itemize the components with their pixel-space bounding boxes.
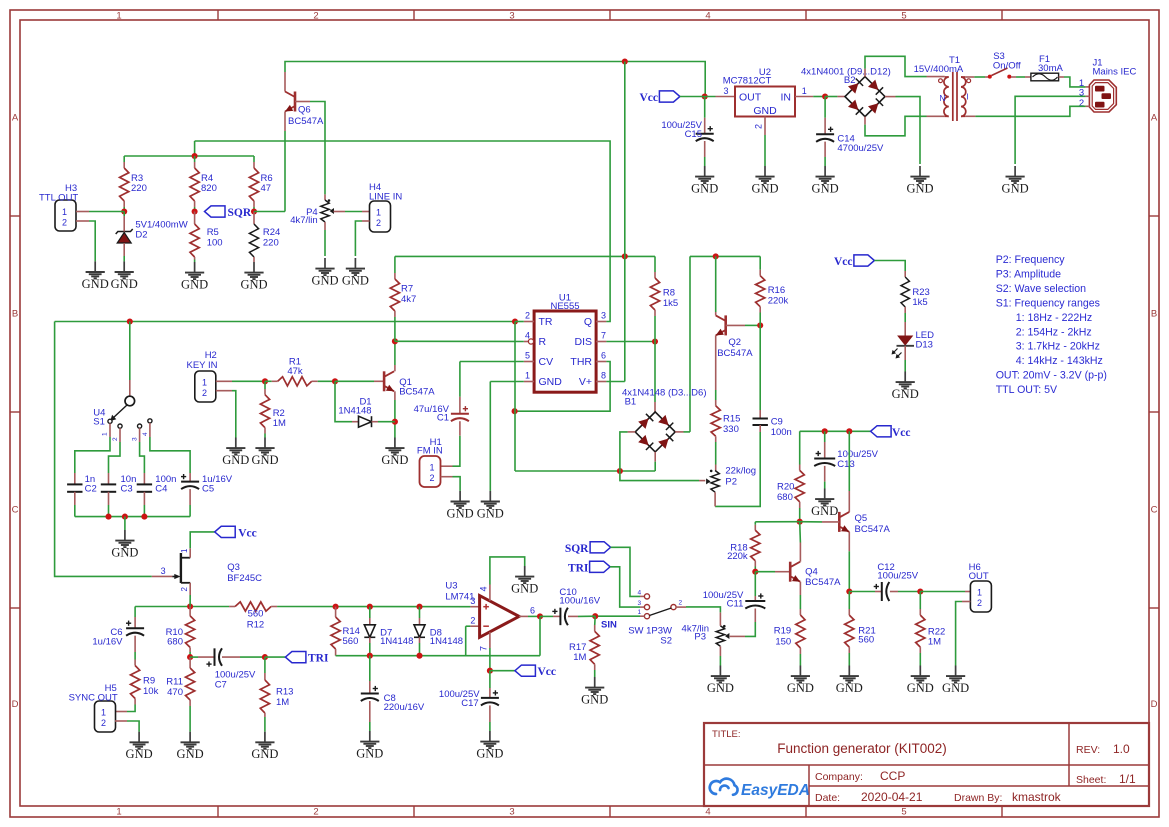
svg-text:B: B (12, 309, 18, 320)
svg-text:2: 2 (754, 124, 764, 129)
svg-text:FM IN: FM IN (417, 446, 443, 457)
svg-text:4k7/lin: 4k7/lin (290, 215, 317, 226)
svg-text:2: 2 (62, 218, 67, 228)
svg-text:560: 560 (858, 635, 874, 646)
svg-text:47: 47 (261, 183, 272, 194)
svg-text:2: 2 (430, 473, 435, 483)
svg-text:GND: GND (581, 693, 608, 707)
svg-text:B2: B2 (844, 75, 856, 86)
svg-text:C: C (12, 505, 19, 516)
svg-text:2: 2 (180, 587, 189, 592)
svg-text:Date:: Date: (815, 792, 840, 804)
svg-text:GND: GND (111, 546, 138, 560)
svg-text:BC547A: BC547A (855, 524, 891, 535)
svg-text:C9: C9 (771, 417, 783, 428)
svg-text:GND: GND (511, 582, 538, 596)
svg-text:GND: GND (907, 681, 934, 695)
svg-text:MC7812CT: MC7812CT (723, 76, 772, 87)
svg-text:5: 5 (525, 351, 530, 361)
svg-text:P3: Amplitude: P3: Amplitude (996, 268, 1061, 280)
svg-text:680: 680 (777, 492, 793, 503)
svg-text:Q4: Q4 (805, 567, 818, 578)
svg-text:GND: GND (356, 747, 383, 761)
svg-text:S1: Frequency ranges: S1: Frequency ranges (996, 297, 1100, 309)
svg-text:1: 1 (525, 371, 530, 381)
svg-text:5: 5 (901, 807, 906, 818)
svg-text:GND: GND (707, 681, 734, 695)
svg-text:Q6: Q6 (298, 105, 311, 116)
svg-text:IN: IN (781, 92, 792, 104)
svg-text:GND: GND (836, 681, 863, 695)
svg-text:1.0: 1.0 (1113, 742, 1130, 756)
svg-text:R5: R5 (207, 227, 219, 238)
svg-text:TR: TR (539, 316, 553, 328)
svg-text:Company:: Company: (815, 771, 863, 783)
svg-text:R16: R16 (768, 285, 785, 296)
svg-text:1: 1 (430, 463, 435, 473)
svg-text:1: 1 (62, 207, 67, 217)
svg-text:GND: GND (311, 274, 338, 288)
svg-text:R13: R13 (276, 687, 293, 698)
svg-text:TRI: TRI (308, 653, 329, 665)
svg-text:1: 1 (102, 432, 109, 436)
svg-text:D2: D2 (135, 230, 147, 241)
svg-text:1u/16V: 1u/16V (92, 637, 123, 648)
svg-text:3: 3 (601, 311, 606, 321)
svg-text:GND: GND (906, 182, 933, 196)
svg-text:GND: GND (691, 182, 718, 196)
svg-text:SIN: SIN (601, 620, 617, 631)
svg-text:220k: 220k (768, 296, 789, 307)
svg-text:GND: GND (181, 278, 208, 292)
svg-text:GND: GND (240, 278, 267, 292)
svg-text:3: 3 (161, 566, 166, 576)
svg-text:SQR: SQR (565, 543, 589, 555)
svg-text:1M: 1M (928, 637, 941, 648)
svg-text:220: 220 (131, 183, 147, 194)
svg-text:1/1: 1/1 (1119, 772, 1136, 786)
svg-text:C2: C2 (85, 484, 97, 495)
svg-text:U3: U3 (445, 581, 457, 592)
svg-text:4: 4 (142, 432, 149, 436)
svg-text:C13: C13 (837, 459, 854, 470)
svg-text:GND: GND (751, 182, 778, 196)
svg-text:100: 100 (207, 238, 223, 249)
svg-text:On/Off: On/Off (993, 60, 1021, 71)
svg-text:1: 1 (116, 11, 121, 22)
svg-text:TRI: TRI (568, 562, 589, 574)
svg-text:BF245C: BF245C (227, 573, 262, 584)
svg-text:Q3: Q3 (227, 562, 240, 573)
svg-text:Vcc: Vcc (639, 92, 658, 104)
svg-text:SQR: SQR (228, 207, 252, 219)
svg-text:1: 1 (180, 548, 189, 553)
svg-text:C3: C3 (121, 484, 133, 495)
svg-text:GND: GND (222, 453, 249, 467)
svg-text:NE555: NE555 (550, 301, 579, 312)
svg-text:Q2: Q2 (728, 337, 741, 348)
svg-text:Drawn By:: Drawn By: (954, 792, 1002, 804)
svg-text:GND: GND (177, 747, 204, 761)
svg-text:5: 5 (901, 11, 906, 22)
svg-text:R20: R20 (777, 482, 794, 493)
svg-text:2: 2 (112, 437, 119, 441)
svg-text:D: D (1151, 699, 1158, 710)
svg-text:R12: R12 (247, 620, 264, 631)
svg-text:S2: Wave selection: S2: Wave selection (996, 283, 1086, 295)
svg-text:S1: S1 (93, 417, 105, 428)
svg-text:S2: S2 (660, 636, 672, 647)
svg-text:Function generator (KIT002): Function generator (KIT002) (777, 741, 947, 756)
svg-text:OUT: OUT (969, 571, 989, 582)
svg-text:2: 2 (977, 598, 982, 608)
svg-text:3: 3 (509, 11, 514, 22)
svg-text:2: 2 (679, 600, 683, 607)
svg-text:560: 560 (248, 609, 264, 620)
svg-text:2: 154Hz - 2kHz: 2: 154Hz - 2kHz (1016, 326, 1092, 338)
svg-text:330: 330 (723, 424, 739, 435)
svg-text:Sheet:: Sheet: (1076, 774, 1106, 786)
svg-text:820: 820 (201, 183, 217, 194)
svg-text:GND: GND (381, 453, 408, 467)
svg-text:BC547A: BC547A (717, 348, 753, 359)
svg-text:Q5: Q5 (855, 513, 868, 524)
svg-text:3: 3 (509, 807, 514, 818)
svg-text:R19: R19 (774, 626, 791, 637)
svg-text:KEY IN: KEY IN (187, 360, 218, 371)
svg-text:GND: GND (539, 376, 563, 388)
svg-text:2: 2 (101, 718, 106, 728)
svg-text:8: 8 (601, 371, 606, 381)
svg-text:2: 2 (313, 11, 318, 22)
svg-text:220u/16V: 220u/16V (384, 702, 425, 713)
svg-text:1: 18Hz - 222Hz: 1: 18Hz - 222Hz (1016, 312, 1093, 324)
svg-text:N: N (940, 94, 946, 103)
svg-text:GND: GND (477, 506, 504, 520)
svg-text:22k/log: 22k/log (725, 466, 756, 477)
svg-text:TITLE:: TITLE: (712, 729, 741, 740)
svg-text:R15: R15 (723, 414, 740, 425)
svg-text:1M: 1M (573, 652, 586, 663)
svg-text:GND: GND (1002, 182, 1029, 196)
svg-text:15V/400mA: 15V/400mA (914, 64, 964, 75)
svg-text:30mA: 30mA (1038, 63, 1063, 74)
svg-text:3: 3 (470, 596, 475, 606)
svg-text:1M: 1M (273, 418, 286, 429)
svg-text:4k7: 4k7 (401, 294, 416, 305)
svg-text:R24: R24 (263, 227, 280, 238)
svg-text:R7: R7 (401, 284, 413, 295)
svg-text:BC547A: BC547A (399, 387, 435, 398)
svg-text:CV: CV (539, 356, 554, 368)
svg-text:GND: GND (126, 747, 153, 761)
svg-text:BC547A: BC547A (805, 577, 841, 588)
svg-text:6: 6 (530, 605, 535, 615)
svg-text:C11: C11 (727, 599, 744, 610)
svg-text:4: 4 (479, 586, 489, 591)
svg-text:4: 4 (705, 807, 710, 818)
svg-text:R9: R9 (143, 676, 155, 687)
svg-text:D: D (12, 699, 19, 710)
svg-text:GND: GND (892, 387, 919, 401)
svg-text:B1: B1 (625, 397, 637, 408)
svg-text:C1: C1 (437, 413, 449, 424)
svg-text:1: 1 (116, 807, 121, 818)
svg-text:680: 680 (167, 637, 183, 648)
svg-text:2: 2 (313, 807, 318, 818)
svg-text:OUT: 20mV - 3.2V (p-p): OUT: 20mV - 3.2V (p-p) (996, 370, 1107, 382)
svg-text:1M: 1M (276, 697, 289, 708)
svg-text:C7: C7 (215, 679, 227, 690)
svg-text:Vcc: Vcc (834, 256, 853, 268)
svg-text:C: C (1151, 505, 1158, 516)
svg-text:1: 1 (202, 378, 207, 388)
svg-text:A: A (12, 113, 19, 124)
svg-text:1: 1 (638, 609, 642, 616)
svg-text:47k: 47k (287, 366, 303, 377)
svg-text:Mains IEC: Mains IEC (1093, 67, 1137, 78)
svg-text:3: 3 (638, 600, 642, 607)
svg-text:2020-04-21: 2020-04-21 (861, 790, 923, 804)
svg-text:B: B (1151, 309, 1157, 320)
svg-text:7: 7 (479, 646, 489, 651)
svg-text:10k: 10k (143, 686, 159, 697)
svg-text:Q: Q (584, 316, 592, 328)
svg-text:6: 6 (601, 351, 606, 361)
svg-text:470: 470 (167, 687, 183, 698)
svg-text:GND: GND (476, 747, 503, 761)
svg-text:REV:: REV: (1076, 744, 1100, 756)
svg-text:3: 3 (132, 437, 139, 441)
svg-text:100u/25V: 100u/25V (877, 571, 918, 582)
svg-text:GND: GND (82, 277, 109, 291)
svg-text:GND: GND (251, 747, 278, 761)
svg-text:kmastrok: kmastrok (1012, 790, 1062, 804)
svg-text:1: 1 (802, 86, 807, 96)
svg-text:BC547A: BC547A (288, 116, 324, 127)
svg-text:1k5: 1k5 (912, 297, 927, 308)
svg-text:1N4148: 1N4148 (338, 406, 371, 417)
svg-text:GND: GND (942, 681, 969, 695)
svg-text:GND: GND (111, 277, 138, 291)
svg-text:C5: C5 (202, 484, 214, 495)
svg-text:A: A (1151, 113, 1158, 124)
svg-text:Vcc: Vcc (238, 527, 257, 539)
svg-text:LINE IN: LINE IN (369, 192, 402, 203)
svg-text:1: 1 (376, 208, 381, 218)
svg-text:P2: P2 (725, 477, 737, 488)
svg-text:1: 1 (977, 588, 982, 598)
svg-text:C17: C17 (461, 698, 478, 709)
svg-text:2: 2 (470, 616, 475, 626)
svg-text:2: 2 (1079, 98, 1084, 109)
svg-text:1N4148: 1N4148 (430, 636, 463, 647)
svg-text:2: 2 (202, 388, 207, 398)
svg-text:GND: GND (787, 681, 814, 695)
svg-text:TTL OUT: 5V: TTL OUT: 5V (996, 384, 1058, 396)
svg-text:220: 220 (263, 238, 279, 249)
svg-text:3: 3 (724, 86, 729, 96)
svg-text:4: 4 (705, 11, 710, 22)
svg-text:P2: Frequency: P2: Frequency (996, 254, 1066, 266)
svg-text:OUT: OUT (739, 92, 762, 104)
svg-text:TTL OUT: TTL OUT (39, 193, 78, 204)
svg-text:THR: THR (570, 356, 592, 368)
svg-text:R11: R11 (166, 677, 183, 688)
svg-text:150: 150 (775, 637, 791, 648)
svg-text:GND: GND (812, 182, 839, 196)
svg-text:R: R (539, 336, 547, 348)
svg-text:R8: R8 (663, 288, 675, 299)
svg-text:1: 1 (101, 708, 106, 718)
svg-text:GND: GND (251, 453, 278, 467)
svg-text:EasyEDA: EasyEDA (741, 782, 810, 799)
svg-text:1k5: 1k5 (663, 298, 678, 309)
svg-text:P3: P3 (694, 632, 706, 643)
svg-text:4700u/25V: 4700u/25V (837, 143, 884, 154)
svg-text:4: 14kHz - 143kHz: 4: 14kHz - 143kHz (1016, 355, 1103, 367)
svg-text:2: 2 (376, 218, 381, 228)
svg-text:GND: GND (811, 504, 838, 518)
svg-text:560: 560 (343, 636, 359, 647)
svg-text:V+: V+ (579, 376, 592, 388)
svg-text:Vcc: Vcc (892, 427, 911, 439)
svg-text:C15: C15 (685, 129, 702, 140)
svg-text:2: 2 (525, 311, 530, 321)
svg-text:I: I (967, 93, 969, 102)
svg-text:100u/16V: 100u/16V (559, 595, 600, 606)
svg-text:4: 4 (638, 589, 642, 596)
svg-text:GND: GND (753, 105, 777, 117)
svg-text:D13: D13 (916, 340, 933, 351)
svg-text:GND: GND (342, 274, 369, 288)
svg-text:7: 7 (601, 331, 606, 341)
svg-text:DIS: DIS (574, 336, 592, 348)
svg-text:CCP: CCP (880, 769, 905, 783)
svg-text:3: 1.7kHz - 20kHz: 3: 1.7kHz - 20kHz (1016, 341, 1100, 353)
svg-text:SYNC OUT: SYNC OUT (69, 693, 118, 704)
svg-text:Vcc: Vcc (538, 666, 557, 678)
svg-text:1N4148: 1N4148 (380, 636, 413, 647)
svg-text:C4: C4 (155, 484, 167, 495)
svg-text:220k: 220k (727, 551, 748, 562)
svg-text:GND: GND (447, 506, 474, 520)
svg-text:100n: 100n (771, 427, 792, 438)
